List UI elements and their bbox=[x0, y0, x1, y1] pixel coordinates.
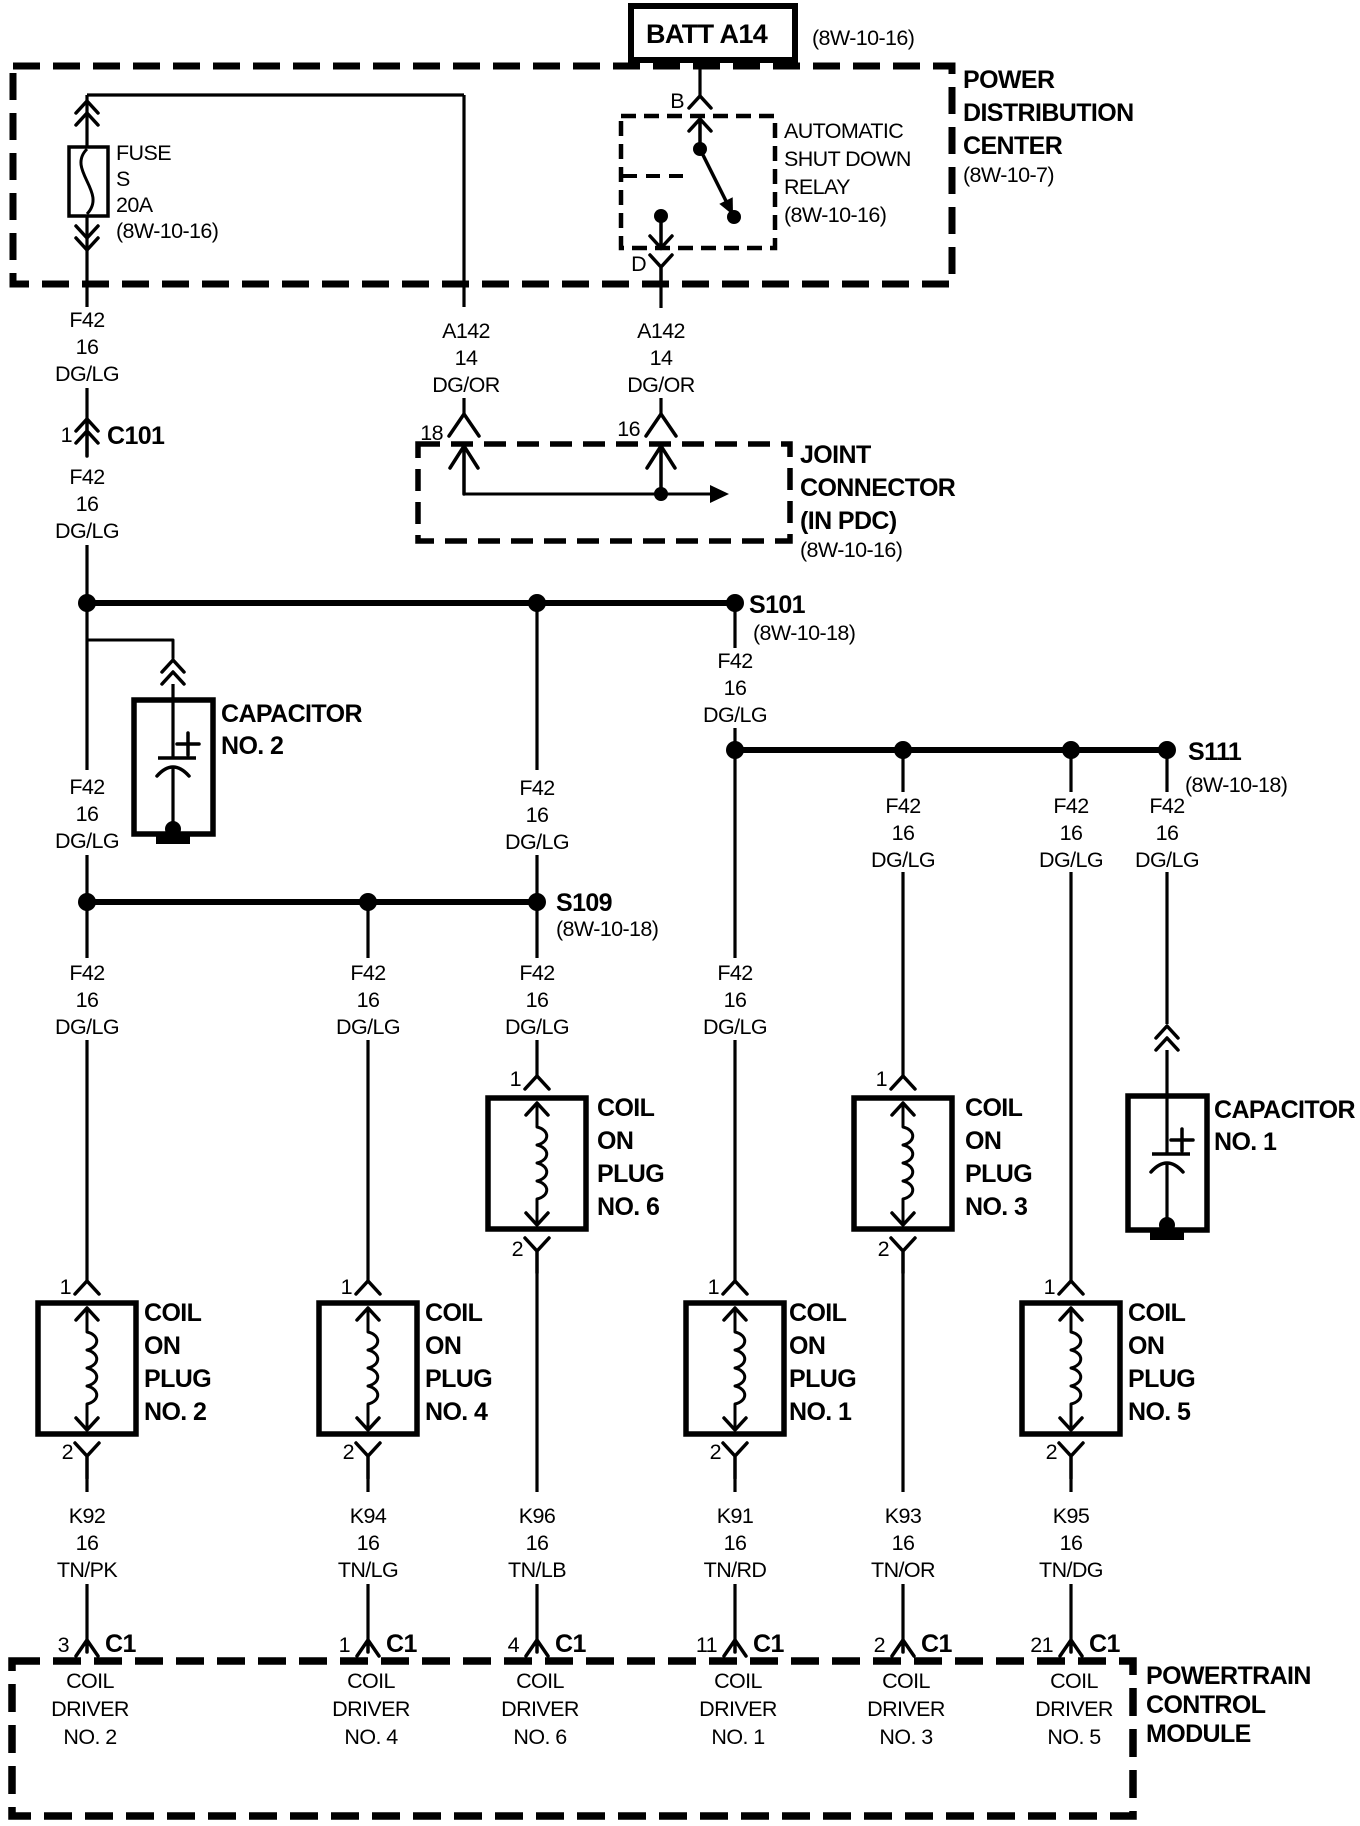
svg-text:DG/LG: DG/LG bbox=[55, 829, 119, 853]
wire column 6 (coil no. 5) down bbox=[1069, 872, 1072, 1281]
svg-text:16: 16 bbox=[357, 988, 380, 1012]
svg-text:TN/DG: TN/DG bbox=[1039, 1558, 1103, 1582]
svg-text:NO. 2: NO. 2 bbox=[63, 1725, 116, 1749]
coil on plug no. 3 pin 2 bbox=[878, 1237, 915, 1273]
svg-text:A142: A142 bbox=[637, 319, 685, 343]
coil on plug no. 5 label bbox=[1128, 1299, 1195, 1426]
svg-text:RELAY: RELAY bbox=[784, 175, 850, 199]
capacitor no. 2 box bbox=[134, 700, 213, 834]
svg-text:TN/RD: TN/RD bbox=[704, 1558, 767, 1582]
svg-text:COIL: COIL bbox=[66, 1669, 114, 1693]
svg-text:C1: C1 bbox=[921, 1630, 952, 1658]
svg-text:DG/LG: DG/LG bbox=[1135, 848, 1199, 872]
wire capacitor no. 1 column bbox=[1165, 872, 1168, 1024]
svg-text:F42: F42 bbox=[69, 961, 104, 985]
svg-text:ON: ON bbox=[965, 1127, 1001, 1155]
svg-text:DRIVER: DRIVER bbox=[867, 1697, 945, 1721]
svg-text:COIL: COIL bbox=[597, 1094, 655, 1122]
svg-text:NO. 5: NO. 5 bbox=[1128, 1398, 1191, 1426]
wire relay pin D to joint connector pin 16 bbox=[659, 285, 662, 308]
capacitor no. 1 lead to ground bbox=[1165, 1162, 1168, 1224]
splice S111 junction 1 bbox=[726, 741, 744, 759]
svg-text:DG/OR: DG/OR bbox=[627, 373, 695, 397]
wire above C101 bbox=[85, 388, 88, 420]
svg-text:16: 16 bbox=[617, 417, 640, 441]
wire column 3 to coil bbox=[535, 1040, 538, 1076]
splice S111 label bbox=[1185, 738, 1287, 797]
svg-text:F42: F42 bbox=[717, 649, 752, 673]
wire S101 to capacitor no. 2 (jog) bbox=[87, 609, 173, 658]
svg-text:DRIVER: DRIVER bbox=[501, 1697, 579, 1721]
svg-text:(8W-10-16): (8W-10-16) bbox=[800, 538, 902, 562]
coil on plug no. 6 box bbox=[488, 1098, 586, 1229]
svg-text:DG/LG: DG/LG bbox=[703, 703, 767, 727]
svg-text:K95: K95 bbox=[1053, 1504, 1090, 1528]
svg-text:K96: K96 bbox=[519, 1504, 556, 1528]
BATT A14 feed box bbox=[631, 6, 795, 60]
wire coil no. 4 to PCM label bbox=[366, 1478, 369, 1492]
coil on plug no. 6 winding bbox=[537, 1103, 547, 1224]
svg-text:NO. 4: NO. 4 bbox=[344, 1725, 398, 1749]
wire K95 to connector C1 bbox=[1069, 1584, 1072, 1640]
capacitor no. 2 top plate bbox=[158, 756, 196, 760]
svg-text:COIL: COIL bbox=[789, 1299, 847, 1327]
wire label F42 16 DG/LG (below C101) bbox=[55, 465, 119, 543]
splice S109 label bbox=[556, 889, 658, 941]
svg-text:F42: F42 bbox=[717, 961, 752, 985]
svg-text:2: 2 bbox=[343, 1440, 354, 1464]
svg-text:ON: ON bbox=[144, 1332, 180, 1360]
wire coil no. 6 to PCM label bbox=[535, 1274, 538, 1492]
wire above pin 16 bbox=[659, 398, 662, 414]
svg-text:C101: C101 bbox=[107, 422, 165, 450]
capacitor no. 2 curved plate bbox=[157, 767, 189, 776]
svg-text:16: 16 bbox=[724, 1531, 747, 1555]
svg-text:F42: F42 bbox=[885, 794, 920, 818]
wire S109 down column 1 bbox=[85, 908, 88, 958]
svg-text:SHUT DOWN: SHUT DOWN bbox=[784, 147, 911, 171]
svg-text:COIL: COIL bbox=[714, 1669, 762, 1693]
coil driver no. 6 label bbox=[501, 1669, 579, 1749]
svg-text:PLUG: PLUG bbox=[789, 1365, 856, 1393]
coil on plug no. 1 label bbox=[789, 1299, 856, 1426]
svg-text:1: 1 bbox=[708, 1275, 719, 1299]
svg-text:C1: C1 bbox=[555, 1630, 586, 1658]
svg-text:1: 1 bbox=[339, 1633, 350, 1657]
relay pin D bbox=[631, 252, 672, 285]
wire K96 to connector C1 bbox=[535, 1584, 538, 1640]
svg-text:1: 1 bbox=[341, 1275, 352, 1299]
coil on plug no. 2 pin 2 bbox=[62, 1440, 99, 1478]
capacitor no. 1 label bbox=[1214, 1096, 1355, 1156]
joint connector box bbox=[418, 444, 790, 541]
svg-text:(IN PDC): (IN PDC) bbox=[800, 507, 897, 535]
wire coil no. 2 to PCM label bbox=[85, 1478, 88, 1492]
wire into capacitor no. 2 bbox=[171, 684, 174, 700]
svg-text:D: D bbox=[631, 252, 646, 276]
svg-text:16: 16 bbox=[76, 802, 99, 826]
coil on plug no. 6 pin 1 bbox=[510, 1067, 549, 1091]
coil on plug no. 6 pin 2 bbox=[512, 1237, 549, 1273]
wire S111 down column 4 bbox=[733, 756, 736, 958]
joint connector pin 16 terminal bbox=[647, 446, 675, 494]
capacitor no. 2 plus sign bbox=[177, 733, 199, 755]
wire S111 down column 5 (coil no. 3) bbox=[901, 756, 904, 792]
coil no. 1 internal arrow down bbox=[724, 1418, 746, 1430]
page connector arrows above fuse bbox=[76, 101, 98, 113]
wire S109 down column 3 bbox=[535, 908, 538, 958]
splice S101 junction left bbox=[78, 594, 96, 612]
splice S109 bus bbox=[87, 899, 537, 905]
svg-text:F42: F42 bbox=[69, 308, 104, 332]
splice S111 junction 2 bbox=[894, 741, 912, 759]
wire column 4 to coil no. 1 bbox=[733, 1040, 736, 1281]
wire K93 to connector C1 bbox=[901, 1584, 904, 1640]
svg-text:(8W-10-18): (8W-10-18) bbox=[753, 621, 855, 645]
splice S101 junction right bbox=[726, 594, 744, 612]
power distribution center label bbox=[963, 66, 1134, 187]
powertrain control module label bbox=[1146, 1662, 1311, 1748]
svg-text:PLUG: PLUG bbox=[1128, 1365, 1195, 1393]
svg-text:S: S bbox=[116, 167, 130, 191]
svg-text:C1: C1 bbox=[1089, 1630, 1120, 1658]
svg-text:COIL: COIL bbox=[1128, 1299, 1186, 1327]
coil on plug no. 5 pin 2 bbox=[1046, 1440, 1083, 1478]
wire S101 down column 1 bbox=[85, 609, 88, 770]
svg-text:ON: ON bbox=[597, 1127, 633, 1155]
svg-text:2: 2 bbox=[62, 1440, 73, 1464]
svg-text:DRIVER: DRIVER bbox=[1035, 1697, 1113, 1721]
svg-text:K94: K94 bbox=[350, 1504, 387, 1528]
wire S111 down column 6 (coil no. 5) bbox=[1069, 756, 1072, 792]
wire above pin 18 bbox=[462, 398, 465, 414]
joint connector pin 18 bbox=[420, 414, 479, 445]
svg-text:PLUG: PLUG bbox=[597, 1160, 664, 1188]
wire column 5 (coil no. 3) down bbox=[901, 872, 904, 1076]
svg-text:F42: F42 bbox=[519, 961, 554, 985]
svg-text:16: 16 bbox=[526, 1531, 549, 1555]
wire column 2 to coil bbox=[366, 1040, 369, 1281]
wire label K96 16 TN/LB bbox=[508, 1504, 566, 1582]
svg-text:COIL: COIL bbox=[425, 1299, 483, 1327]
coil driver no. 3 label bbox=[867, 1669, 945, 1749]
coil on plug no. 4 label bbox=[425, 1299, 492, 1426]
wire coil no. 5 to PCM label bbox=[1069, 1478, 1072, 1492]
svg-text:F42: F42 bbox=[350, 961, 385, 985]
wire column 1 to coil bbox=[85, 1040, 88, 1281]
capacitor no. 1 ground bar bbox=[1150, 1232, 1184, 1240]
svg-text:16: 16 bbox=[892, 821, 915, 845]
coil driver no. 4 label bbox=[332, 1669, 410, 1749]
wire label A142 14 DG/OR (pin 16 feed) bbox=[627, 319, 695, 397]
coil no. 1 internal arrow up bbox=[724, 1308, 746, 1320]
svg-text:MODULE: MODULE bbox=[1146, 1720, 1251, 1748]
relay pin B contact arrow bbox=[689, 119, 711, 147]
svg-text:DG/LG: DG/LG bbox=[55, 519, 119, 543]
svg-text:16: 16 bbox=[526, 988, 549, 1012]
splice S111 bus bbox=[735, 747, 1167, 753]
coil on plug no. 6 label bbox=[597, 1094, 664, 1221]
wire label A142 14 DG/OR (pin 18 feed) bbox=[432, 319, 500, 397]
coil on plug no. 2 winding bbox=[87, 1308, 97, 1429]
wire to S109 left bbox=[85, 855, 88, 894]
svg-text:NO. 1: NO. 1 bbox=[711, 1725, 764, 1749]
svg-text:JOINT: JOINT bbox=[800, 441, 871, 469]
relay output dot bbox=[654, 209, 668, 223]
splice S101 junction middle bbox=[528, 594, 546, 612]
svg-text:PLUG: PLUG bbox=[144, 1365, 211, 1393]
svg-text:NO. 6: NO. 6 bbox=[513, 1725, 567, 1749]
svg-text:1: 1 bbox=[60, 1275, 71, 1299]
splice S109 junction middle bbox=[359, 893, 377, 911]
capacitor no. 1 curved plate bbox=[1151, 1163, 1183, 1172]
coil on plug no. 2 label bbox=[144, 1299, 211, 1426]
connector C1 pin 3 bbox=[58, 1630, 137, 1658]
capacitor no. 2 ground bar bbox=[156, 836, 190, 844]
capacitor no. 2 ground dot bbox=[165, 821, 181, 837]
svg-text:(8W-10-7): (8W-10-7) bbox=[963, 163, 1054, 187]
relay armature arrowhead bbox=[719, 197, 733, 215]
wire A142 down to joint connector pin 18 bbox=[462, 95, 465, 307]
coil on plug no. 4 winding bbox=[368, 1308, 378, 1429]
wire coil no. 1 to PCM label bbox=[733, 1478, 736, 1492]
capacitor no. 2 label bbox=[221, 700, 362, 760]
svg-text:1: 1 bbox=[61, 423, 72, 447]
svg-text:DG/LG: DG/LG bbox=[871, 848, 935, 872]
svg-text:2: 2 bbox=[874, 1633, 885, 1657]
svg-text:F42: F42 bbox=[1149, 794, 1184, 818]
svg-text:NO. 5: NO. 5 bbox=[1047, 1725, 1101, 1749]
svg-text:COIL: COIL bbox=[144, 1299, 202, 1327]
svg-text:(8W-10-16): (8W-10-16) bbox=[116, 219, 218, 243]
svg-text:B: B bbox=[670, 89, 684, 113]
coil on plug no. 3 box bbox=[854, 1098, 952, 1229]
joint connector internal bus wire bbox=[464, 493, 712, 496]
coil no. 6 internal arrow down bbox=[526, 1213, 548, 1225]
wire label K95 16 TN/DG bbox=[1039, 1504, 1103, 1582]
svg-text:FUSE: FUSE bbox=[116, 141, 171, 165]
wire K91 to connector C1 bbox=[733, 1584, 736, 1640]
coil no. 3 internal arrow down bbox=[892, 1213, 914, 1225]
joint connector bus arrowhead bbox=[710, 485, 729, 503]
svg-text:DRIVER: DRIVER bbox=[332, 1697, 410, 1721]
wire label F42 16 DG/LG (column 1 above S109) bbox=[55, 775, 119, 853]
svg-text:K92: K92 bbox=[69, 1504, 105, 1528]
svg-text:(8W-10-16): (8W-10-16) bbox=[812, 26, 914, 50]
svg-text:(8W-10-16): (8W-10-16) bbox=[784, 203, 886, 227]
wire label F42 16 DG/LG (fuse output) bbox=[55, 308, 119, 386]
capacitor no. 1 ground dot bbox=[1159, 1217, 1175, 1233]
connector C1 pin 4 bbox=[508, 1630, 587, 1658]
coil driver no. 5 label bbox=[1035, 1669, 1113, 1749]
svg-text:CONNECTOR: CONNECTOR bbox=[800, 474, 956, 502]
coil on plug no. 2 box bbox=[38, 1303, 136, 1434]
wire label K94 16 TN/LG bbox=[338, 1504, 398, 1582]
svg-text:1: 1 bbox=[1044, 1275, 1055, 1299]
svg-text:TN/PK: TN/PK bbox=[57, 1558, 119, 1582]
splice S109 junction right bbox=[528, 893, 546, 911]
wire label F42 16 DG/LG (column 2 below S109) bbox=[336, 961, 400, 1039]
svg-text:DG/OR: DG/OR bbox=[432, 373, 500, 397]
svg-text:DG/LG: DG/LG bbox=[505, 1015, 569, 1039]
svg-text:F42: F42 bbox=[1053, 794, 1088, 818]
relay armature pivot bbox=[693, 142, 707, 156]
svg-text:AUTOMATIC: AUTOMATIC bbox=[784, 119, 903, 143]
wire label F42 16 DG/LG (column 6 (coil no. 5)) bbox=[1039, 794, 1103, 872]
wire label F42 16 DG/LG (S101 to S111) bbox=[703, 649, 767, 727]
connector C1 pin 1 bbox=[339, 1630, 418, 1658]
svg-text:C1: C1 bbox=[386, 1630, 417, 1658]
svg-text:PLUG: PLUG bbox=[425, 1365, 492, 1393]
coil driver no. 1 label bbox=[699, 1669, 777, 1749]
svg-text:F42: F42 bbox=[519, 776, 554, 800]
svg-text:A142: A142 bbox=[442, 319, 490, 343]
svg-text:ON: ON bbox=[1128, 1332, 1164, 1360]
svg-text:11: 11 bbox=[696, 1633, 717, 1657]
svg-text:16: 16 bbox=[76, 988, 99, 1012]
svg-text:COIL: COIL bbox=[347, 1669, 395, 1693]
wire S109 down column 2 bbox=[366, 908, 369, 958]
capacitor no. 2 lead bbox=[171, 700, 174, 758]
coil no. 4 internal arrow up bbox=[357, 1308, 379, 1320]
svg-text:16: 16 bbox=[76, 1531, 99, 1555]
svg-text:POWER: POWER bbox=[963, 66, 1055, 94]
svg-text:COIL: COIL bbox=[1050, 1669, 1098, 1693]
svg-text:(8W-10-18): (8W-10-18) bbox=[556, 917, 658, 941]
page connector arrows above capacitor no. 2 bbox=[162, 660, 184, 672]
coil on plug no. 3 winding bbox=[903, 1103, 913, 1224]
coil on plug no. 3 label bbox=[965, 1094, 1032, 1221]
svg-text:2: 2 bbox=[878, 1237, 889, 1261]
svg-text:DISTRIBUTION: DISTRIBUTION bbox=[963, 99, 1134, 127]
connector C1 pin 11 bbox=[696, 1630, 785, 1658]
svg-text:CAPACITOR: CAPACITOR bbox=[1214, 1096, 1355, 1124]
coil on plug no. 1 pin 2 bbox=[710, 1440, 747, 1478]
svg-text:DRIVER: DRIVER bbox=[699, 1697, 777, 1721]
coil on plug no. 1 pin 1 bbox=[708, 1275, 747, 1299]
page connector arrows below fuse bbox=[76, 238, 98, 250]
svg-text:COIL: COIL bbox=[516, 1669, 564, 1693]
svg-text:DG/LG: DG/LG bbox=[55, 362, 119, 386]
fuse S 20A bbox=[69, 147, 108, 216]
svg-text:1: 1 bbox=[876, 1067, 887, 1091]
wire below fuse bbox=[85, 215, 88, 307]
svg-text:DG/LG: DG/LG bbox=[55, 1015, 119, 1039]
coil on plug no. 1 box bbox=[686, 1303, 784, 1434]
coil no. 5 internal arrow up bbox=[1060, 1308, 1082, 1320]
svg-text:14: 14 bbox=[455, 346, 478, 370]
coil on plug no. 4 pin 1 bbox=[341, 1275, 380, 1299]
svg-text:C1: C1 bbox=[105, 1630, 136, 1658]
coil on plug no. 5 box bbox=[1022, 1303, 1120, 1434]
joint connector pin 18 terminal bbox=[450, 446, 478, 494]
svg-text:TN/LB: TN/LB bbox=[508, 1558, 566, 1582]
page connector arrows above capacitor no. 1 bbox=[1156, 1026, 1178, 1038]
powertrain control module box bbox=[12, 1661, 1133, 1816]
relay armature arm bbox=[700, 149, 727, 203]
coil on plug no. 5 winding bbox=[1071, 1308, 1081, 1429]
wire C101 to splice S101 bbox=[85, 545, 88, 595]
svg-text:ON: ON bbox=[789, 1332, 825, 1360]
svg-text:K91: K91 bbox=[717, 1504, 753, 1528]
capacitor no. 1 box bbox=[1128, 1096, 1207, 1230]
wire label K93 16 TN/OR bbox=[871, 1504, 935, 1582]
svg-text:1: 1 bbox=[510, 1067, 521, 1091]
joint connector bus junction bbox=[654, 487, 668, 501]
svg-text:DRIVER: DRIVER bbox=[51, 1697, 129, 1721]
relay internal divider bbox=[623, 174, 687, 178]
svg-text:2: 2 bbox=[1046, 1440, 1057, 1464]
wire fuse to joint connector (top horizontal) bbox=[87, 93, 464, 96]
svg-text:CENTER: CENTER bbox=[963, 132, 1063, 160]
svg-text:16: 16 bbox=[76, 492, 99, 516]
svg-text:18: 18 bbox=[420, 421, 443, 445]
svg-text:ON: ON bbox=[425, 1332, 461, 1360]
svg-text:16: 16 bbox=[892, 1531, 915, 1555]
coil no. 6 internal arrow up bbox=[526, 1103, 548, 1115]
svg-text:C1: C1 bbox=[753, 1630, 784, 1658]
coil no. 2 internal arrow up bbox=[76, 1308, 98, 1320]
joint connector pin 16 bbox=[617, 414, 676, 441]
splice S101 label bbox=[749, 591, 855, 645]
wire into S111 bbox=[733, 728, 736, 744]
wire batt box to relay pin B bbox=[698, 60, 701, 96]
svg-text:14: 14 bbox=[650, 346, 673, 370]
splice S111 junction 4 bbox=[1158, 741, 1176, 759]
wire batt feed down to fuse bbox=[85, 95, 88, 148]
splice S111 junction 3 bbox=[1062, 741, 1080, 759]
coil no. 4 internal arrow down bbox=[357, 1418, 379, 1430]
svg-text:16: 16 bbox=[724, 988, 747, 1012]
svg-text:16: 16 bbox=[1060, 1531, 1083, 1555]
wire coil no. 3 to PCM label bbox=[901, 1274, 904, 1492]
wire label K91 16 TN/RD bbox=[704, 1504, 767, 1582]
automatic shut down relay label bbox=[784, 119, 911, 227]
svg-text:16: 16 bbox=[526, 803, 549, 827]
svg-text:2: 2 bbox=[512, 1237, 523, 1261]
svg-text:(8W-10-18): (8W-10-18) bbox=[1185, 773, 1287, 797]
svg-text:20A: 20A bbox=[116, 193, 154, 217]
coil on plug no. 4 pin 2 bbox=[343, 1440, 380, 1478]
svg-text:POWERTRAIN: POWERTRAIN bbox=[1146, 1662, 1311, 1690]
svg-text:16: 16 bbox=[1156, 821, 1179, 845]
wire K92 to connector C1 bbox=[85, 1584, 88, 1640]
svg-text:3: 3 bbox=[58, 1633, 70, 1657]
wire S101 down to S111 bbox=[733, 609, 736, 648]
svg-text:NO. 3: NO. 3 bbox=[879, 1725, 933, 1749]
wire label F42 16 DG/LG (column 3 above S109) bbox=[505, 776, 569, 854]
fuse label bbox=[116, 141, 218, 243]
svg-text:CAPACITOR: CAPACITOR bbox=[221, 700, 362, 728]
svg-text:F42: F42 bbox=[69, 465, 104, 489]
joint connector label bbox=[800, 441, 956, 562]
svg-text:NO. 2: NO. 2 bbox=[221, 732, 283, 760]
coil driver no. 2 label bbox=[51, 1669, 129, 1749]
svg-text:4: 4 bbox=[508, 1633, 520, 1657]
svg-text:16: 16 bbox=[724, 676, 747, 700]
svg-text:16: 16 bbox=[76, 335, 99, 359]
coil no. 5 internal arrow down bbox=[1060, 1418, 1082, 1430]
relay pin B bbox=[670, 89, 711, 113]
wire label F42 16 DG/LG (column 5 (coil no. 3)) bbox=[871, 794, 935, 872]
wire S101 down column 3 bbox=[535, 609, 538, 770]
svg-text:DG/LG: DG/LG bbox=[505, 830, 569, 854]
power distribution center box bbox=[13, 66, 952, 284]
splice S101 bus bbox=[87, 600, 735, 606]
svg-text:16: 16 bbox=[1060, 821, 1083, 845]
svg-text:S111: S111 bbox=[1188, 738, 1242, 766]
svg-text:TN/OR: TN/OR bbox=[871, 1558, 935, 1582]
